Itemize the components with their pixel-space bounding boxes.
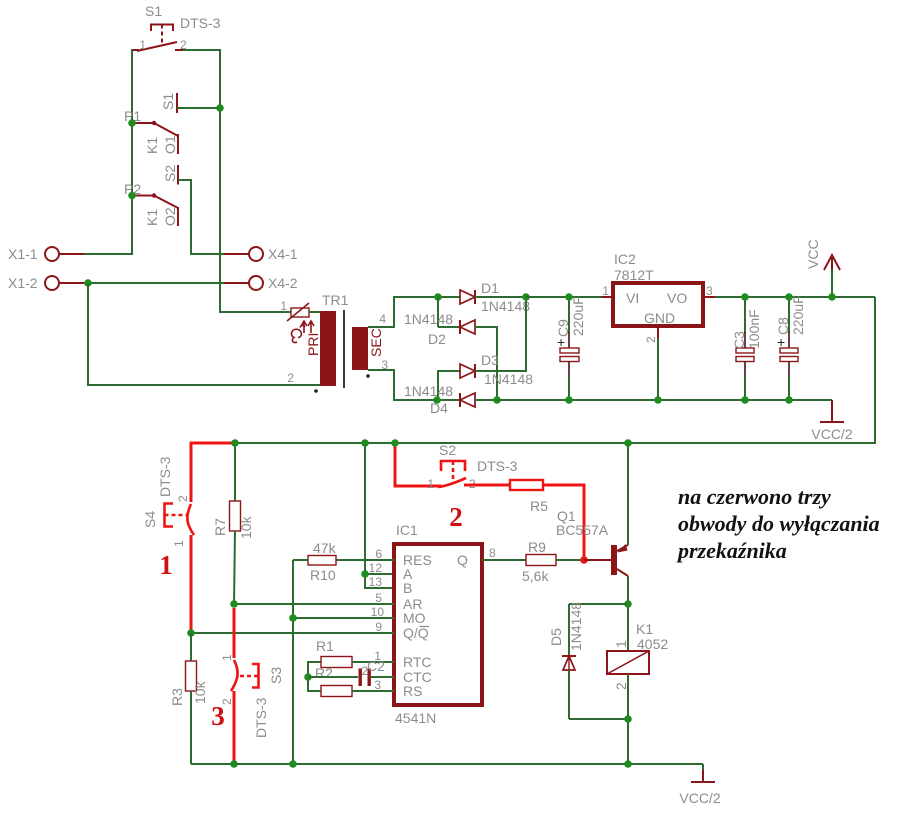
wire TR1 pin3 to bridge xyxy=(368,370,437,400)
node VCC stem xyxy=(828,293,836,301)
svg-text:5: 5 xyxy=(375,591,382,605)
svg-text:IC1: IC1 xyxy=(396,522,418,538)
transistor Q1 BC557A xyxy=(556,508,628,576)
diode D5 xyxy=(548,602,628,719)
svg-text:K1: K1 xyxy=(144,209,160,226)
svg-text:na czerwono trzy: na czerwono trzy xyxy=(678,484,831,509)
wire VCC to logic rail xyxy=(628,297,875,443)
svg-text:O2: O2 xyxy=(162,207,178,226)
diode D3 xyxy=(438,297,533,400)
node IC2 GND xyxy=(654,396,662,404)
svg-text:DTS-3: DTS-3 xyxy=(157,456,173,497)
node C3 top xyxy=(741,293,749,301)
svg-text:R7: R7 xyxy=(212,518,228,536)
svg-text:R2: R2 xyxy=(315,665,333,681)
svg-text:12: 12 xyxy=(369,561,383,575)
svg-text:4541N: 4541N xyxy=(395,710,436,726)
connector X4-2 xyxy=(224,275,298,291)
node R1 R2 C2 xyxy=(304,673,312,681)
svg-text:5,6k: 5,6k xyxy=(522,568,549,584)
svg-text:R10: R10 xyxy=(310,567,336,583)
svg-text:X1-1: X1-1 xyxy=(8,246,38,262)
svg-text:RTC: RTC xyxy=(403,654,432,670)
node bridge minus xyxy=(493,396,501,404)
svg-text:MO: MO xyxy=(403,610,426,626)
switch S3 xyxy=(220,608,284,764)
wire pin 12 xyxy=(365,573,394,575)
svg-text:7812T: 7812T xyxy=(614,267,654,283)
svg-text:R9: R9 xyxy=(528,539,546,555)
svg-text:DTS-3: DTS-3 xyxy=(477,458,518,474)
svg-text:SEC: SEC xyxy=(368,328,384,357)
svg-text:1: 1 xyxy=(159,550,173,580)
resistor R5 xyxy=(510,480,548,514)
supply symbol VCC xyxy=(805,239,840,297)
svg-text:X4-2: X4-2 xyxy=(268,275,298,291)
svg-text:DTS-3: DTS-3 xyxy=(180,15,221,31)
node C8 top xyxy=(785,293,793,301)
svg-text:10: 10 xyxy=(371,605,385,619)
switch S2 xyxy=(427,442,517,491)
wire bottom rail power xyxy=(497,399,832,401)
wire pin5 AR xyxy=(234,603,394,605)
node MO vertical bottom xyxy=(289,760,297,768)
svg-text:S2: S2 xyxy=(162,165,178,182)
resistor R9 xyxy=(482,539,584,584)
svg-text:9: 9 xyxy=(375,620,382,634)
connector X1-2 xyxy=(8,275,84,291)
node pin12 xyxy=(361,570,369,578)
ground symbol VCC/2 right xyxy=(811,400,852,442)
svg-text:C9: C9 xyxy=(555,319,571,337)
svg-text:1: 1 xyxy=(280,299,287,313)
svg-text:10k: 10k xyxy=(192,680,208,704)
switch S4 xyxy=(142,456,194,547)
svg-text:D1: D1 xyxy=(481,280,499,296)
switch S1 xyxy=(131,3,221,52)
wire K1 pin2 down xyxy=(627,674,629,764)
svg-text:X4-1: X4-1 xyxy=(268,246,298,262)
relay contact K1 P1-O1 xyxy=(124,108,178,154)
node P1 junction xyxy=(128,119,136,127)
node pin10 xyxy=(289,614,297,622)
svg-text:DTS-3: DTS-3 xyxy=(253,697,269,738)
connector X1-1 xyxy=(8,246,84,262)
transformer TR1 xyxy=(280,292,388,393)
svg-text:1: 1 xyxy=(427,477,434,491)
svg-text:13: 13 xyxy=(369,575,383,589)
wire S2 post to X4-1 xyxy=(178,180,224,254)
svg-text:4: 4 xyxy=(379,312,386,326)
resistor R1 xyxy=(308,638,394,677)
svg-text:1: 1 xyxy=(613,640,629,648)
svg-text:3: 3 xyxy=(706,284,713,298)
svg-text:R3: R3 xyxy=(169,688,185,706)
svg-text:3: 3 xyxy=(211,701,225,731)
svg-text:2: 2 xyxy=(176,495,190,502)
resistor R7 xyxy=(212,443,254,604)
svg-text:K1: K1 xyxy=(144,137,160,154)
connector X4-1 xyxy=(224,246,298,262)
svg-text:R5: R5 xyxy=(530,498,548,514)
wire IC2 GND to rail xyxy=(657,338,659,400)
diode D2 xyxy=(404,311,497,400)
wire S1 pin2 to TR1 pin1 xyxy=(183,50,291,312)
svg-text:VCC/2: VCC/2 xyxy=(811,426,852,442)
node X1-2 junction xyxy=(84,279,92,287)
svg-text:1N4148: 1N4148 xyxy=(568,602,584,651)
svg-text:1: 1 xyxy=(172,540,186,547)
svg-text:przekaźnika: przekaźnika xyxy=(676,538,787,563)
svg-text:2: 2 xyxy=(613,682,629,690)
svg-text:D2: D2 xyxy=(428,331,446,347)
svg-text:1N4148: 1N4148 xyxy=(404,383,453,399)
svg-text:X1-2: X1-2 xyxy=(8,275,38,291)
capacitor C3 xyxy=(731,297,762,400)
node C9 top xyxy=(565,293,573,301)
node pin5 S3 R7 xyxy=(230,600,238,608)
node D5 bottom xyxy=(624,715,632,723)
resistor R3 xyxy=(169,633,208,764)
svg-text:S2: S2 xyxy=(439,442,456,458)
diode D1 xyxy=(438,280,530,314)
node bridge AC1 xyxy=(434,293,442,301)
wire Q1 collector down xyxy=(627,576,629,651)
node collector D5 top xyxy=(624,600,632,608)
diode D4 xyxy=(404,383,497,416)
node bridge AC2 xyxy=(433,396,441,404)
wire AC1 down to D2 xyxy=(437,297,439,327)
wire S1 post to S1-pin2 net xyxy=(177,107,220,109)
svg-text:1N4148: 1N4148 xyxy=(404,311,453,327)
resistor R2 xyxy=(308,665,394,697)
wire TR1 pin4 to bridge xyxy=(368,297,438,327)
wire pin10 MO xyxy=(293,617,394,619)
node rail S2 xyxy=(391,439,399,447)
svg-text:10k: 10k xyxy=(238,515,254,539)
svg-text:VO: VO xyxy=(667,290,687,306)
svg-text:100nF: 100nF xyxy=(746,309,762,349)
svg-text:C3: C3 xyxy=(731,331,747,349)
wire R10 left to MO and rail bottom xyxy=(292,560,294,764)
ground symbol VCC/2 bottom xyxy=(679,764,720,806)
svg-text:D3: D3 xyxy=(481,352,499,368)
wire X1-2 to X4-2 xyxy=(84,282,224,284)
svg-text:PRI: PRI xyxy=(305,333,321,356)
svg-text:R1: R1 xyxy=(316,638,334,654)
relay contact pin S1 of K1 xyxy=(160,93,177,113)
wire red S2 to rail xyxy=(395,443,441,486)
svg-text:+: + xyxy=(777,334,785,350)
svg-text:S3: S3 xyxy=(268,667,284,684)
capacitor C9 xyxy=(555,296,586,400)
svg-text:8: 8 xyxy=(489,546,496,560)
voltage regulator IC2 7812T xyxy=(602,251,713,343)
IC1 4541N xyxy=(361,522,496,726)
svg-text:Q/Q: Q/Q xyxy=(403,625,429,641)
capacitor C2 xyxy=(308,658,394,686)
svg-text:VCC/2: VCC/2 xyxy=(679,790,720,806)
resistor R10 xyxy=(293,540,394,583)
svg-text:1N4148: 1N4148 xyxy=(484,371,533,387)
wire S1 pin1 to X1-1 and relay poles xyxy=(80,50,132,254)
svg-text:C2: C2 xyxy=(367,658,385,674)
wire bottom rail logic xyxy=(191,763,703,765)
svg-text:BC557A: BC557A xyxy=(556,522,609,538)
svg-text:D5: D5 xyxy=(548,628,564,646)
wire rail to pins 12 13 xyxy=(365,443,394,588)
svg-text:S4: S4 xyxy=(142,511,158,528)
relay contact pin S2 of K1 xyxy=(162,165,178,185)
svg-text:1N4148: 1N4148 xyxy=(481,298,530,314)
wire VCC logic top rail xyxy=(235,442,628,444)
svg-text:220uF: 220uF xyxy=(790,295,806,335)
note text xyxy=(676,484,880,563)
svg-text:1: 1 xyxy=(139,38,146,52)
svg-text:4052: 4052 xyxy=(637,636,668,652)
svg-text:C8: C8 xyxy=(775,317,791,335)
svg-text:B: B xyxy=(403,580,412,596)
wire Q1 emitter to rail xyxy=(627,443,629,545)
svg-text:2: 2 xyxy=(644,336,658,343)
svg-text:RS: RS xyxy=(403,683,422,699)
node rail A-B xyxy=(361,439,369,447)
node S3 bottom xyxy=(230,760,238,768)
relay coil K1 4052 xyxy=(607,621,668,690)
wire red S4 pin1 down xyxy=(190,535,193,633)
wire red S4 pin2 to rail xyxy=(191,443,235,502)
svg-text:1: 1 xyxy=(220,654,234,661)
node junction xyxy=(216,104,224,112)
svg-text:IC2: IC2 xyxy=(614,251,636,267)
svg-text:K1: K1 xyxy=(636,621,653,637)
wire pin9 QQ xyxy=(191,632,394,634)
svg-text:TR1: TR1 xyxy=(322,292,349,308)
svg-text:47k: 47k xyxy=(313,540,337,556)
svg-text:3: 3 xyxy=(374,678,381,692)
svg-text:GND: GND xyxy=(644,310,675,326)
relay contact K1 P2-O2 xyxy=(124,181,178,226)
wire red R5 to Q1 base node xyxy=(543,485,584,560)
svg-text:obwody do wyłączania: obwody do wyłączania xyxy=(678,511,880,536)
node bridge plus xyxy=(522,293,530,301)
svg-text:6: 6 xyxy=(375,547,382,561)
node C8 bottom xyxy=(785,396,793,404)
wire bridge plus to IC2 VI xyxy=(526,296,601,298)
wire base to Q1 xyxy=(584,559,611,561)
wire IC2 VO to VCC xyxy=(703,296,875,298)
node Q1 base red xyxy=(580,556,588,564)
svg-text:VI: VI xyxy=(626,290,639,306)
svg-text:VCC: VCC xyxy=(805,239,821,269)
svg-text:O1: O1 xyxy=(162,135,178,154)
wire X1-2 node to TR1 pin2 xyxy=(88,283,320,385)
svg-text:2: 2 xyxy=(287,371,294,385)
node relay bottom xyxy=(624,760,632,768)
svg-text:2: 2 xyxy=(449,502,463,532)
svg-text:S1: S1 xyxy=(145,3,162,19)
node rail R7 xyxy=(231,439,239,447)
svg-text:S1: S1 xyxy=(160,93,176,110)
node P2 junction xyxy=(128,192,136,200)
svg-text:220uF: 220uF xyxy=(570,296,586,336)
svg-text:Q: Q xyxy=(457,552,468,568)
node rail Q1 xyxy=(624,439,632,447)
node pin9 S4 R3 xyxy=(187,629,195,637)
capacitor C8 xyxy=(775,295,806,400)
node C9 bottom xyxy=(565,396,573,404)
svg-text:1: 1 xyxy=(602,284,609,298)
node C3 bottom xyxy=(741,396,749,404)
wire red S2 pin2 to R5 xyxy=(464,484,510,487)
